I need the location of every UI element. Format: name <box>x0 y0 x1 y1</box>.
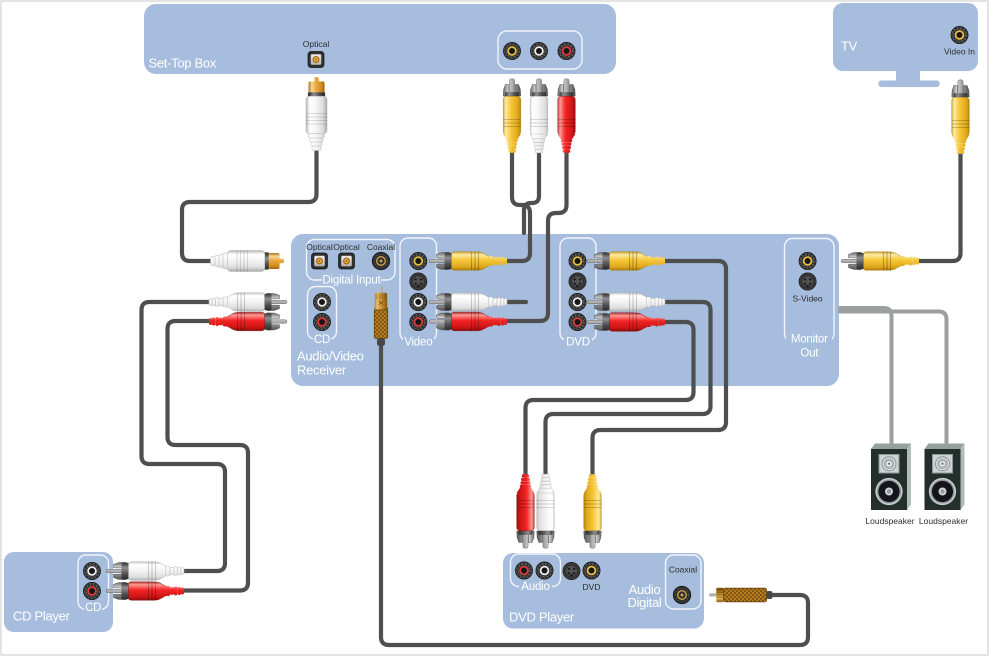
wire: monitor out yellow to TV <box>917 151 961 261</box>
plug: DVD player video yellow hanging <box>584 474 602 548</box>
wire: DVD red receiver to DVD player <box>526 322 694 474</box>
svg-text:Optical: Optical <box>303 39 330 49</box>
svg-text:Video: Video <box>404 337 432 349</box>
group: receiver digital input <box>307 240 396 287</box>
jack: receiver coaxial <box>367 242 395 270</box>
wire: white audio STB stub <box>524 151 539 233</box>
plug: STB yellow hanging <box>503 79 521 153</box>
set-top box <box>144 4 616 74</box>
plug: receiver video red <box>429 312 507 331</box>
plug: CD player red <box>106 582 184 601</box>
jack: receiver dvd yellow <box>569 252 586 269</box>
wire: coaxial digital DVD player to receiver <box>381 344 808 645</box>
jack: DVD player audio red <box>515 562 532 579</box>
jack: DVD player audio white <box>536 562 553 579</box>
jack: CD player white <box>83 562 100 579</box>
plug: DVD player audio red hanging <box>517 474 535 548</box>
group: DVD player coaxial out <box>666 555 702 609</box>
wire: DVD yellow receiver to DVD player <box>593 261 727 474</box>
CD player <box>4 552 113 632</box>
svg-text:Out: Out <box>800 348 819 360</box>
group: DVD player audio out <box>511 554 561 593</box>
svg-text:DVD: DVD <box>566 337 590 349</box>
plug: receiver CD white (points right) <box>209 293 287 312</box>
svg-text:Receiver: Receiver <box>297 363 347 378</box>
jack: receiver optical 2 <box>333 242 360 269</box>
group: receiver monitor out <box>785 239 835 360</box>
svg-text:Loudspeaker: Loudspeaker <box>919 516 968 526</box>
svg-text:Optical: Optical <box>306 242 333 252</box>
jack: receiver dvd s-video <box>569 273 586 290</box>
svg-text:Audio: Audio <box>521 581 549 593</box>
wire: speaker left <box>840 308 892 446</box>
svg-text:Set-Top Box: Set-Top Box <box>149 56 217 71</box>
group: CD player line out <box>78 555 109 614</box>
wire: optical STB to receiver <box>182 149 317 261</box>
svg-text:Optical: Optical <box>333 242 360 252</box>
jack: receiver CD red <box>313 313 330 330</box>
plug: optical hanging from STB <box>306 77 327 151</box>
jack: receiver video s-video <box>410 273 427 290</box>
loudspeaker right <box>919 444 968 527</box>
wire: yellow video STB to receiver video <box>506 151 530 261</box>
wire: CD white to receiver CD <box>142 302 226 571</box>
svg-text:Monitor: Monitor <box>791 334 828 346</box>
plug: optical at receiver digital input <box>211 251 285 272</box>
svg-text:Audio/Video: Audio/Video <box>297 349 364 364</box>
jack: receiver CD white <box>313 293 330 310</box>
plug: monitor out yellow <box>841 252 919 271</box>
svg-text:S-Video: S-Video <box>793 294 823 304</box>
jack: DVD player coaxial <box>673 586 691 604</box>
jack: receiver monitor s-video <box>793 273 823 304</box>
jack: DVD player s-video <box>563 562 580 579</box>
svg-text:CD: CD <box>314 334 330 346</box>
jack: STB yellow <box>503 42 520 59</box>
jack: receiver video white <box>410 293 427 310</box>
wire: speaker right <box>840 312 947 447</box>
jack: receiver video red <box>410 313 427 330</box>
TV <box>833 3 978 87</box>
svg-text:Digital: Digital <box>627 595 661 610</box>
svg-text:Coaxial: Coaxial <box>669 565 697 575</box>
svg-text:Digital Input: Digital Input <box>322 275 381 287</box>
svg-text:DVD: DVD <box>583 582 601 592</box>
DVD player <box>503 553 704 629</box>
jack: TV video in <box>944 26 975 56</box>
plug: receiver dvd white <box>587 293 665 312</box>
jack: CD player red <box>83 582 100 599</box>
svg-text:CD Player: CD Player <box>13 609 71 624</box>
wire: red audio STB to receiver video red <box>506 151 567 321</box>
svg-text:DVD Player: DVD Player <box>509 610 575 625</box>
plug: STB red hanging <box>558 79 576 153</box>
jack: STB white <box>530 42 547 59</box>
loudspeaker left <box>865 444 914 527</box>
audio/video receiver <box>291 234 839 386</box>
plug: gold coax at DVD player <box>709 588 772 602</box>
svg-text:Coaxial: Coaxial <box>367 242 395 252</box>
jack: receiver monitor yellow <box>799 252 816 269</box>
wire: CD red to receiver CD <box>168 321 249 591</box>
svg-text:Video In: Video In <box>944 47 975 57</box>
jack: receiver dvd red <box>569 313 586 330</box>
jack: receiver video yellow <box>410 252 427 269</box>
svg-text:CD: CD <box>85 602 101 614</box>
plug: receiver dvd red <box>587 313 665 332</box>
plug: gold coax at receiver <box>374 286 388 346</box>
group: STB composite out <box>498 31 582 69</box>
plug: TV video in yellow <box>952 80 970 154</box>
group: receiver CD input <box>308 287 337 347</box>
plug: receiver dvd yellow <box>587 252 665 271</box>
wire: DVD white receiver to DVD player <box>546 302 711 474</box>
plug: receiver video yellow <box>429 252 507 271</box>
jack: receiver optical 1 <box>306 242 333 269</box>
plug: STB white hanging <box>530 79 548 153</box>
svg-text:TV: TV <box>841 39 858 54</box>
wire: white video stub at receiver <box>505 300 526 304</box>
jack: receiver dvd white <box>569 293 586 310</box>
jack: STB red <box>558 42 575 59</box>
group: receiver video input <box>400 238 437 349</box>
group: receiver DVD input <box>560 238 596 349</box>
plug: DVD player audio white hanging <box>537 474 555 548</box>
plug: receiver video white <box>429 293 507 312</box>
jack: STB optical <box>303 39 330 68</box>
svg-text:Loudspeaker: Loudspeaker <box>865 516 914 526</box>
plug: receiver CD red (points right) <box>209 312 287 331</box>
jack: DVD player video yellow <box>583 562 601 592</box>
plug: CD player white <box>106 562 184 581</box>
